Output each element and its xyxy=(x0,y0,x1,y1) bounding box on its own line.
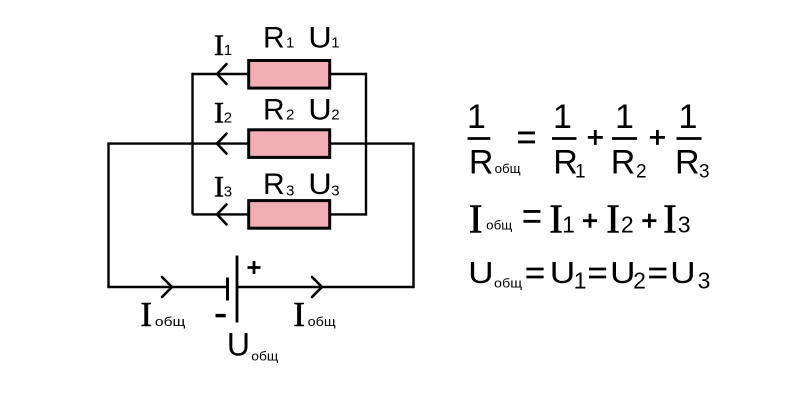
svg-text:3: 3 xyxy=(698,268,711,294)
svg-text:I: I xyxy=(469,196,483,242)
battery long plate (positive) xyxy=(236,256,239,323)
svg-text:U: U xyxy=(468,255,494,290)
svg-text:R: R xyxy=(263,22,285,55)
wire: outer right vertical xyxy=(412,142,414,287)
arrow I2 (left) on branch 2 xyxy=(217,134,227,154)
svg-text:3: 3 xyxy=(699,161,710,182)
wire: branch 3 horizontal xyxy=(193,213,367,215)
svg-text:I: I xyxy=(293,295,305,334)
resistor R1 xyxy=(249,61,330,89)
arrow Iобщ (right) bottom-left wire xyxy=(162,277,172,297)
svg-text:3: 3 xyxy=(286,183,294,200)
formula row1: plus sign xyxy=(650,130,665,145)
svg-text:I: I xyxy=(214,97,224,130)
svg-text:U: U xyxy=(550,255,576,290)
wire: outer left vertical xyxy=(107,142,109,287)
formula row1: equals sign xyxy=(518,133,535,142)
arrow I3 (left) on branch 3 xyxy=(217,204,227,224)
svg-text:общ: общ xyxy=(494,275,522,290)
formula row2: equals sign xyxy=(523,211,540,221)
svg-text:2: 2 xyxy=(636,161,647,182)
svg-text:1: 1 xyxy=(331,35,339,52)
svg-text:2: 2 xyxy=(224,110,232,127)
wire: right inner bus xyxy=(365,73,367,216)
svg-text:1: 1 xyxy=(553,98,572,136)
svg-text:1: 1 xyxy=(562,212,575,238)
wire: branch 1 right segment xyxy=(329,73,366,75)
svg-text:1: 1 xyxy=(224,42,232,59)
svg-text:U: U xyxy=(610,255,636,290)
svg-text:I: I xyxy=(214,171,224,204)
wire: branch 2 full horizontal xyxy=(109,142,414,144)
svg-text:U: U xyxy=(227,326,250,362)
wire: left inner bus xyxy=(191,73,193,215)
svg-text:R: R xyxy=(611,143,636,181)
svg-text:1: 1 xyxy=(679,98,698,136)
svg-text:общ: общ xyxy=(155,314,186,329)
svg-text:2: 2 xyxy=(633,268,646,294)
svg-text:общ: общ xyxy=(486,217,512,232)
formula row2: plus sign xyxy=(642,214,656,228)
svg-text:I: I xyxy=(663,196,677,242)
svg-text:R: R xyxy=(263,94,285,127)
svg-text:R: R xyxy=(469,143,494,181)
resistor R2 xyxy=(249,130,330,158)
svg-text:3: 3 xyxy=(224,184,232,201)
arrow I1 (left) on branch 1 xyxy=(217,64,227,84)
formula row3: equals sign xyxy=(649,269,666,277)
formula row1: plus sign xyxy=(588,130,603,145)
wire: battery to bottom right xyxy=(237,286,415,288)
svg-text:U: U xyxy=(308,22,332,55)
svg-text:1: 1 xyxy=(574,268,587,294)
wire: bottom left to battery xyxy=(107,286,227,288)
arrow Iобщ (right) bottom-right wire xyxy=(312,277,322,297)
battery plus sign xyxy=(248,261,261,274)
svg-text:U: U xyxy=(308,94,332,127)
svg-text:R: R xyxy=(263,168,285,201)
svg-text:1: 1 xyxy=(286,35,294,52)
svg-text:U: U xyxy=(670,255,696,290)
formula row2: plus sign xyxy=(583,214,597,228)
battery short plate (negative) xyxy=(226,278,229,301)
svg-text:R: R xyxy=(675,143,700,181)
battery minus sign xyxy=(216,314,226,318)
svg-text:1: 1 xyxy=(575,161,586,182)
formula row3: equals sign xyxy=(589,269,606,277)
svg-text:I: I xyxy=(214,29,224,62)
svg-text:2: 2 xyxy=(331,107,339,124)
svg-text:1: 1 xyxy=(467,98,486,136)
svg-text:общ: общ xyxy=(495,161,521,176)
svg-text:общ: общ xyxy=(308,314,336,329)
svg-text:2: 2 xyxy=(286,107,294,124)
svg-text:общ: общ xyxy=(251,348,278,363)
svg-text:3: 3 xyxy=(331,183,339,200)
svg-text:I: I xyxy=(549,196,563,242)
formula row3: equals sign xyxy=(526,269,543,277)
svg-text:1: 1 xyxy=(615,98,634,136)
wire: branch 1 left segment with node to left bus xyxy=(193,73,251,75)
resistor R3 xyxy=(249,201,330,229)
svg-text:2: 2 xyxy=(621,212,634,238)
svg-text:3: 3 xyxy=(678,212,691,238)
svg-text:I: I xyxy=(606,196,620,242)
svg-text:I: I xyxy=(140,295,152,334)
svg-text:U: U xyxy=(308,168,332,201)
